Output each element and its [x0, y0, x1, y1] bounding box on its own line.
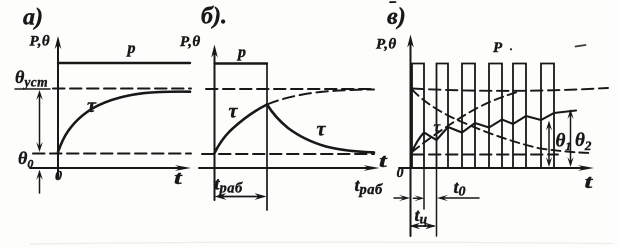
svg-text:t: t — [174, 168, 183, 189]
dashed cooling envelope (v) — [412, 90, 590, 154]
dimension arrow theta_1 — [546, 121, 552, 168]
y-axis (a) — [55, 36, 62, 178]
power pulse train (v) — [412, 64, 554, 169]
power pulse right edge (b) — [266, 64, 268, 211]
scan streak artifact bottom — [30, 242, 612, 244]
svg-text:t: t — [379, 151, 388, 172]
svg-text:р: р — [236, 44, 246, 61]
t-axis (v) — [399, 165, 594, 171]
svg-text:θ1: θ1 — [556, 131, 572, 154]
svg-text:tраб: tраб — [355, 175, 384, 198]
t-axis (b) — [199, 165, 380, 171]
stray mark above v) — [390, 1, 396, 3]
stray dash top right — [576, 45, 586, 47]
svg-text:а): а) — [23, 5, 43, 31]
dashed theta_ust level (v) — [412, 88, 608, 91]
svg-text:τ: τ — [87, 95, 97, 117]
svg-text:в): в) — [387, 4, 406, 30]
cooling curve tau (b) — [267, 105, 374, 153]
heating curve tau (b) — [215, 105, 268, 154]
svg-text:Р,θ: Р,θ — [376, 37, 397, 53]
svg-text:t: t — [585, 172, 594, 193]
dimension arrow t_0 (v) — [437, 195, 479, 201]
dashed line theta_ust level (a) — [53, 88, 191, 90]
extension line pulse2 start below axis — [436, 168, 438, 236]
dashed heating envelope (v) — [412, 93, 516, 153]
y-axis (b) — [211, 45, 218, 201]
dimension double arrow t_rab (b) — [214, 193, 266, 200]
dashed theta_0 level (v) — [412, 154, 558, 156]
speck after P label — [510, 48, 512, 50]
svg-text:θуст: θуст — [15, 67, 48, 90]
svg-text:Р,θ: Р,θ — [180, 34, 201, 50]
dimension arrow theta_ust to theta_0 — [36, 90, 43, 152]
svg-text:р: р — [126, 40, 136, 57]
svg-text:θ2: θ2 — [575, 130, 592, 153]
extension line pulse1 end below axis — [423, 168, 425, 209]
svg-text:τ: τ — [317, 119, 327, 141]
dimension arrow below theta_0 — [36, 170, 43, 193]
svg-text:0: 0 — [397, 166, 404, 181]
svg-text:t0: t0 — [454, 177, 466, 200]
svg-text:τ: τ — [434, 120, 442, 136]
sawtooth temperature curve tau (v) — [412, 111, 576, 153]
dimension double arrow t_c (v) — [410, 223, 436, 229]
svg-text:Р,θ: Р,θ — [30, 34, 51, 50]
svg-text:Р: Р — [493, 40, 503, 56]
t-axis (a) — [30, 165, 191, 171]
power line p (a) — [58, 62, 190, 64]
dashed line theta_0 level (a) — [33, 153, 191, 155]
y-axis (v) — [407, 35, 414, 237]
dimension arrow inside t_rab (v) — [414, 195, 425, 201]
dashed theta_ust level (b) — [206, 88, 374, 90]
dimension arrow theta_2 — [567, 109, 573, 167]
svg-text:τ: τ — [229, 101, 239, 123]
heating curve tau (a) — [58, 92, 190, 152]
dimension arrow t_rab right (v) — [394, 195, 410, 201]
dashed theta_0 level (b) — [202, 153, 374, 155]
power pulse top (b) — [215, 62, 268, 64]
dashed heating continuation (b) — [267, 90, 374, 105]
svg-text:θ0: θ0 — [18, 148, 33, 171]
svg-text:б).: б). — [201, 4, 227, 30]
svg-text:tраб: tраб — [215, 174, 244, 197]
svg-text:0: 0 — [55, 169, 62, 184]
theta_ust label underline — [15, 88, 50, 90]
